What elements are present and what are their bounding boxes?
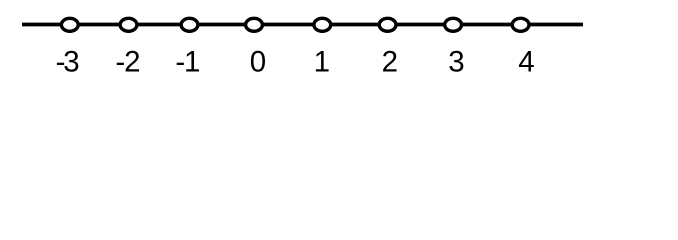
number line axis	[22, 23, 583, 27]
open circle at -2	[120, 18, 137, 31]
open circle at 1	[314, 18, 331, 31]
svg-text:3: 3	[448, 45, 464, 78]
open circle at -1	[181, 18, 198, 31]
svg-text:1: 1	[184, 45, 200, 78]
svg-text:4: 4	[518, 45, 534, 78]
open circle at -3	[61, 18, 78, 31]
svg-text:0: 0	[250, 45, 266, 78]
open circle at 4	[512, 18, 529, 31]
svg-text:3: 3	[63, 45, 79, 78]
svg-text:2: 2	[382, 45, 398, 78]
open circle at 2	[379, 18, 396, 31]
svg-text:2: 2	[124, 45, 140, 78]
svg-text:1: 1	[314, 45, 330, 78]
open circle at 0	[246, 18, 263, 31]
open circle at 3	[445, 18, 462, 31]
